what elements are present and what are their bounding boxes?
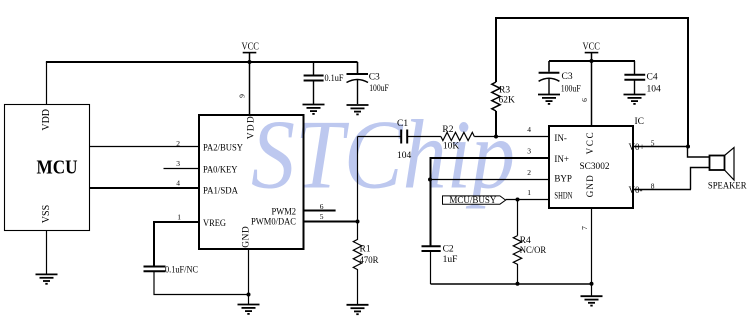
- capacitor C3 left (polarized): [347, 62, 369, 104]
- wire R2 to IN-: [474, 136, 548, 138]
- capacitor C1 series: [401, 130, 407, 144]
- junction rail right: [590, 59, 594, 63]
- U1 pin name VDD rotated: [246, 116, 256, 139]
- label 100uF: [369, 84, 389, 94]
- resistor R2 10K horizontal: [441, 132, 474, 140]
- U1 pin name PWM0/DAC: [251, 217, 296, 227]
- wire 0.1uF branch: [313, 62, 315, 76]
- wire C1 left: [358, 136, 402, 138]
- label 100uF (right): [561, 84, 581, 94]
- svg-text:1uF: 1uF: [443, 255, 458, 265]
- speaker symbol: [710, 148, 735, 181]
- svg-text:R3: R3: [499, 86, 510, 96]
- svg-text:4: 4: [176, 179, 180, 188]
- capacitor C2: [422, 246, 441, 251]
- svg-text:8: 8: [651, 181, 655, 190]
- watermark STChip: [251, 101, 515, 210]
- junction R4 bottom: [516, 282, 520, 286]
- wire amp GND down: [591, 208, 593, 296]
- pin number 4: [176, 179, 180, 188]
- wire R4 bottom: [517, 268, 519, 285]
- label 0.1uF: [325, 74, 344, 84]
- label IC: [635, 117, 645, 127]
- svg-text:GND: GND: [585, 175, 595, 198]
- pin number 5: [320, 212, 324, 221]
- label 1uF: [443, 255, 458, 265]
- svg-text:3: 3: [527, 146, 531, 155]
- pin number 3: [176, 159, 180, 168]
- label C1: [397, 119, 408, 129]
- wire IN+ vertical to C2: [430, 157, 432, 246]
- resistor R1 470R vertical: [353, 222, 361, 275]
- svg-text:IC: IC: [635, 117, 645, 127]
- svg-text:C3: C3: [369, 73, 380, 83]
- label 470R: [360, 256, 380, 266]
- svg-text:10K: 10K: [443, 141, 460, 151]
- wire U1 GND down: [248, 249, 250, 305]
- svg-text:VCC: VCC: [582, 42, 600, 53]
- wire cap to bottom then right: [154, 271, 249, 294]
- wire PWM2 stub pin 6: [304, 210, 336, 212]
- svg-text:NC/OR: NC/OR: [520, 246, 547, 256]
- wire PWM0/DAC pin 5: [304, 221, 358, 223]
- wire V0- to speaker: [691, 168, 710, 190]
- wire VREG left: [154, 222, 199, 267]
- pin number 5 (amp): [651, 138, 655, 147]
- svg-text:4: 4: [527, 125, 531, 134]
- wire bottom rail: [431, 283, 592, 285]
- svg-text:PA1/SDA: PA1/SDA: [203, 187, 238, 197]
- junction V0+ loop: [686, 145, 690, 149]
- svg-text:VSS: VSS: [41, 205, 52, 223]
- pin number 6 (amp) rotated: [580, 98, 589, 102]
- chip U1 body: [199, 115, 304, 249]
- label 62K: [499, 95, 516, 105]
- svg-text:VDD: VDD: [246, 116, 256, 139]
- wire R1 to ground: [357, 274, 359, 305]
- svg-text:1: 1: [527, 188, 531, 197]
- MCU label: [37, 157, 78, 179]
- svg-text:0.1uF/NC: 0.1uF/NC: [165, 266, 198, 276]
- svg-text:104: 104: [397, 151, 412, 161]
- pin number 1 (amp): [527, 188, 531, 197]
- svg-text:VCC: VCC: [241, 42, 259, 53]
- pin number 8 (amp): [651, 181, 655, 190]
- svg-text:100uF: 100uF: [561, 84, 581, 94]
- svg-text:6: 6: [580, 98, 589, 102]
- U1 pin name VREG: [203, 219, 226, 229]
- amp label SC3002: [580, 162, 610, 172]
- svg-text:VCC: VCC: [585, 132, 595, 154]
- svg-text:R1: R1: [360, 245, 371, 255]
- svg-text:R2: R2: [442, 125, 453, 135]
- pin number 6: [320, 202, 324, 211]
- amp pin name GND rotated: [585, 175, 595, 198]
- label 104 (C4): [647, 84, 662, 94]
- net label MCU/BUSY text: [449, 195, 496, 205]
- wire MCU VSS down: [46, 231, 48, 275]
- wire R3 top to loop: [495, 18, 497, 82]
- junction amp gnd: [590, 282, 594, 286]
- ground below MCU: [36, 274, 58, 283]
- pin number 1: [177, 212, 181, 221]
- svg-text:5: 5: [320, 212, 324, 221]
- svg-text:PWM0/DAC: PWM0/DAC: [251, 217, 296, 227]
- wire R3 bottom: [495, 111, 497, 137]
- svg-text:GND: GND: [242, 226, 252, 248]
- label R2: [442, 125, 453, 135]
- svg-text:5: 5: [651, 138, 655, 147]
- wire MCU VDD up to rail: [46, 62, 48, 105]
- label SPEAKER: [708, 181, 747, 191]
- amp pin name IN+: [554, 154, 569, 164]
- wire VCC rail right: [549, 60, 635, 62]
- label R3: [499, 86, 510, 96]
- label 0.1uF/NC: [165, 266, 198, 276]
- power VCC symbol left: [241, 42, 259, 53]
- wire C2 down to rail: [430, 251, 432, 284]
- U1 pin name PA2/BUSY: [203, 144, 243, 154]
- amp pin name BYP: [554, 174, 572, 184]
- net flag MCU/BUSY: [443, 196, 506, 204]
- label C4: [647, 73, 658, 83]
- wire R4 top: [517, 200, 519, 236]
- label C2: [443, 244, 454, 254]
- label R1: [360, 245, 371, 255]
- ground below 0.1uF: [303, 105, 325, 114]
- junction PWM0 node: [356, 220, 360, 224]
- svg-text:C2: C2: [443, 244, 454, 254]
- svg-text:PA0/KEY: PA0/KEY: [203, 165, 238, 175]
- svg-text:BYP: BYP: [554, 174, 572, 184]
- svg-text:2: 2: [176, 139, 180, 148]
- wire BYP pin 2: [430, 179, 548, 181]
- label NC/OR: [520, 246, 547, 256]
- svg-text:PA2/BUSY: PA2/BUSY: [203, 144, 243, 154]
- svg-text:STChip: STChip: [251, 101, 515, 210]
- wire V0+ pin 5: [633, 146, 688, 148]
- junction BYP node: [428, 178, 432, 182]
- wire V0- pin 8: [633, 189, 691, 191]
- svg-text:62K: 62K: [499, 95, 516, 105]
- resistor R3 62K vertical: [492, 82, 500, 111]
- wire VCC rail left: [46, 61, 358, 63]
- wire V0+ to speaker: [688, 147, 710, 158]
- ground below C3 left: [347, 105, 369, 114]
- svg-text:IN-: IN-: [554, 133, 567, 143]
- ground below R1: [347, 305, 369, 314]
- svg-text:C1: C1: [397, 119, 408, 129]
- junction R4 node: [516, 198, 520, 202]
- MCU block: [5, 105, 90, 231]
- ground below C3 right: [538, 95, 560, 104]
- wire 0.1uF to ground: [313, 81, 315, 105]
- label C3 (right): [562, 72, 573, 82]
- wire PA1/SDA: [90, 187, 200, 189]
- svg-text:6: 6: [320, 202, 324, 211]
- svg-text:C3: C3: [562, 72, 573, 82]
- wire signal vertical up to C1: [357, 137, 359, 222]
- svg-text:1: 1: [177, 212, 181, 221]
- svg-text:VDD: VDD: [41, 109, 52, 131]
- amp IC body: [549, 126, 633, 208]
- svg-text:SC3002: SC3002: [580, 162, 610, 172]
- wire PA0/KEY stub: [164, 168, 200, 170]
- svg-text:9: 9: [238, 94, 247, 98]
- U1 pin name PA0/KEY: [203, 165, 238, 175]
- power VCC symbol right: [582, 42, 600, 53]
- wire PA2/BUSY: [90, 146, 200, 148]
- svg-text:7: 7: [580, 226, 589, 230]
- svg-text:470R: 470R: [360, 256, 380, 266]
- svg-text:104: 104: [647, 84, 662, 94]
- junction R3 node: [494, 135, 498, 139]
- pin number 7 (amp) rotated: [580, 226, 589, 230]
- U1 pin name GND rotated: [242, 226, 252, 248]
- pin number 2: [176, 139, 180, 148]
- U1 pin name PA1/SDA: [203, 187, 238, 197]
- U1 pin name PWM2: [272, 208, 297, 218]
- svg-text:3: 3: [176, 159, 180, 168]
- svg-text:0.1uF: 0.1uF: [325, 74, 344, 84]
- svg-text:IN+: IN+: [554, 154, 569, 164]
- junction U1 gnd: [247, 293, 251, 297]
- svg-text:MCU: MCU: [37, 157, 78, 179]
- wire feedback loop top: [495, 17, 688, 19]
- capacitor 0.1uF/NC: [144, 267, 166, 272]
- amp pin name SHDN: [554, 190, 572, 200]
- amp pin name V0+: [629, 142, 645, 152]
- wire SHDN pin 1: [506, 199, 548, 201]
- MCU pin name VDD: [41, 109, 52, 131]
- svg-text:R4: R4: [520, 236, 531, 246]
- pin number 9: [238, 94, 247, 98]
- ground below U1: [238, 305, 260, 314]
- capacitor 0.1uF: [304, 76, 324, 81]
- pin number 4 (amp): [527, 125, 531, 134]
- label C3: [369, 73, 380, 83]
- MCU pin name VSS: [41, 205, 52, 223]
- amp pin name V0-: [629, 185, 643, 195]
- wire VCC stub down to U1 VDD pin 9: [249, 53, 251, 116]
- svg-text:SPEAKER: SPEAKER: [708, 181, 747, 191]
- capacitor C4: [624, 61, 645, 94]
- label R4: [520, 236, 531, 246]
- svg-text:100uF: 100uF: [369, 84, 389, 94]
- amp pin name IN-: [554, 133, 567, 143]
- resistor R4 NC/OR vertical: [513, 236, 521, 268]
- svg-text:MCU/BUSY: MCU/BUSY: [449, 195, 496, 205]
- wire loop right down: [687, 17, 689, 147]
- svg-text:VREG: VREG: [203, 219, 226, 229]
- amp pin name VCC rotated: [585, 132, 595, 154]
- svg-text:C4: C4: [647, 73, 658, 83]
- ground below C4: [624, 95, 646, 104]
- ground bottom right: [581, 296, 603, 305]
- wire C1 right: [407, 136, 441, 138]
- capacitor C3 right (polarized): [539, 61, 560, 94]
- junction on rail at VCC: [248, 60, 252, 64]
- svg-text:PWM2: PWM2: [272, 208, 297, 218]
- pin number 3 (amp): [527, 146, 531, 155]
- svg-text:SHDN: SHDN: [554, 190, 572, 200]
- pin number 2 (amp): [527, 168, 531, 177]
- wire VCC stub down to amp pin 6: [591, 53, 593, 127]
- label 10K: [443, 141, 460, 151]
- wire IN+ pin 3: [430, 157, 548, 159]
- svg-text:2: 2: [527, 168, 531, 177]
- label 104: [397, 151, 412, 161]
